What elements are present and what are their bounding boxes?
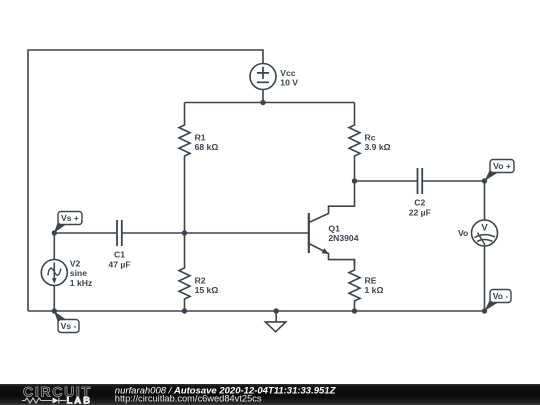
svg-text:C1: C1 [114,250,125,260]
wire Vcc bottom lead [262,90,264,103]
resistor R2 [179,233,190,311]
wire C1 to base [122,232,309,234]
resistor Rc [349,103,360,182]
wire bottom rail [28,310,485,312]
voltage source Vcc [250,64,276,90]
svg-text:Vo -: Vo - [493,291,509,301]
svg-text:3.9 kΩ: 3.9 kΩ [365,142,391,152]
svg-text:1 kHz: 1 kHz [70,278,92,288]
svg-text:C2: C2 [414,198,425,208]
logo resistor-diode squiggle [22,398,66,404]
svg-text:LAB: LAB [67,395,92,405]
svg-text:Vcc: Vcc [280,68,296,78]
capacitor C1 [117,220,122,246]
svg-text:http://circuitlab.com/c6wed84v: http://circuitlab.com/c6wed84vt25cs [115,393,262,403]
svg-text:Rc: Rc [365,132,376,142]
svg-text:47 µF: 47 µF [108,259,130,269]
svg-text:Vs -: Vs - [61,321,77,331]
node base junction [182,230,187,235]
svg-text:68 kΩ: 68 kΩ [195,142,219,152]
wire collector rail [355,180,418,182]
svg-text:Q1: Q1 [328,224,340,234]
node ground junction [274,308,279,313]
svg-text:RE: RE [365,276,377,286]
flag Vs+ [54,212,82,234]
flag Vs- [54,311,79,333]
svg-text:Vs +: Vs + [61,213,79,223]
node Vo- [482,308,487,313]
node Vs- [52,308,57,313]
footer bar [0,384,540,405]
svg-text:Vo: Vo [458,228,468,238]
resistor R1 [179,103,190,234]
node collector [352,178,357,183]
wire C2 to Vo+ [422,180,484,182]
svg-text:sine: sine [70,268,87,278]
svg-text:2N3904: 2N3904 [328,233,358,243]
ground [265,311,285,332]
node Vo+ [482,178,487,183]
node Vs+ [52,230,57,235]
svg-text:V: V [481,223,488,234]
voltmeter Vo [472,181,498,311]
voltage source V2 [41,233,67,311]
svg-text:22 µF: 22 µF [409,207,431,217]
node RE bottom [352,308,357,313]
node R2 bottom [182,308,187,313]
node Vcc junction [260,100,265,105]
resistor RE [349,260,360,311]
flag Vo- [485,290,512,312]
svg-text:R2: R2 [195,276,206,286]
transistor Q1 [309,181,355,266]
capacitor C2 [418,168,423,194]
wire base rail [54,232,117,234]
svg-text:V2: V2 [70,258,81,268]
wire top rail [185,102,355,104]
svg-text:Vo +: Vo + [493,161,511,171]
svg-text:R1: R1 [195,132,206,142]
flag Vo+ [485,160,515,182]
svg-text:15 kΩ: 15 kΩ [195,285,219,295]
svg-text:10 V: 10 V [280,78,298,88]
wire outer loop left/top [28,50,263,311]
svg-text:1 kΩ: 1 kΩ [365,285,384,295]
